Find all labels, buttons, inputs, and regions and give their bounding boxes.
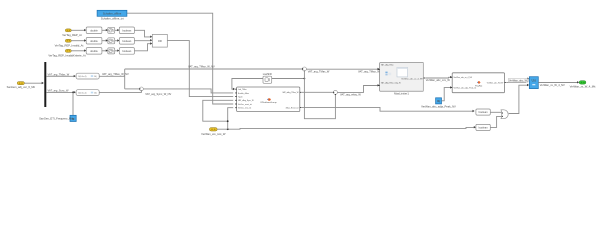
svg-text:1/(0.1s+1): 1/(0.1s+1) [78, 93, 87, 95]
junction dot on bottom wire [227, 128, 229, 130]
constant block Schalter_offline [97, 10, 127, 20]
svg-text:XPlattformGroup: XPlattformGroup [260, 101, 277, 104]
data type conversion double row3 [86, 48, 102, 55]
svg-text:VerWan_abc_W_NV: VerWan_abc_W_NV [487, 82, 504, 84]
wire inport1 to double1 [71, 29, 86, 31]
compare-to-constant block row1 [108, 27, 115, 33]
data type conversion boolean row1 [119, 27, 134, 34]
wire goto block up into PegRat in2 [442, 86, 453, 101]
wire inport3 to double3 [71, 49, 86, 51]
inport SanGen_adj_ver_6_Mit [7, 82, 35, 89]
svg-text:boolean: boolean [122, 29, 132, 32]
svg-text:TqaIn: TqaIn [238, 97, 243, 99]
svg-text:Schalter_offline_txt: Schalter_offline_txt [101, 16, 124, 20]
compare-to-constant block row2 [108, 38, 115, 44]
svg-text:Schalter_offline: Schalter_offline [103, 11, 122, 15]
wire bottom inport to boolean block b2 [217, 126, 476, 129]
data type conversion double row2 [86, 38, 102, 45]
svg-text:xMax_Reset_txt: xMax_Reset_txt [286, 106, 299, 109]
svg-text:VAT_arg_TMax_W_NV: VAT_arg_TMax_W_NV [188, 65, 215, 69]
wire compare3 to boolean3 [115, 49, 120, 51]
data type conversion double row1 [86, 27, 102, 34]
PegRat port ticks [451, 77, 506, 87]
svg-text:VerWan_xx_W_4_Mit: VerWan_xx_W_4_Mit [570, 85, 596, 89]
subsystem MaxLimiter1 with plot preview [380, 63, 424, 96]
feed of bottom inport net: inport VerWan_ete_test_W [201, 128, 226, 136]
wire double1 to compare1 [102, 29, 108, 31]
svg-text:Uo: Uo [531, 79, 536, 83]
inport VerTag_REP_Invalid_At [55, 39, 84, 47]
wire filter1 output with branch up-down [99, 69, 302, 89]
wire MaxLimiter1 out to PegRat subsystem [425, 76, 452, 82]
svg-text:MaxLimiter1: MaxLimiter1 [394, 92, 409, 96]
svg-text:LowShift: LowShift [263, 73, 273, 76]
svg-text:double: double [90, 50, 98, 53]
wire compare1 to boolean1 [115, 29, 120, 31]
wire bubble to MaxLimiter1 in1 [306, 68, 380, 74]
wire OR output down to big subsystem in3 [167, 41, 233, 97]
svg-text:Enable_xMax: Enable_xMax [238, 93, 249, 95]
wire sum bubble to MaxLimiter1 in2 [337, 84, 379, 96]
merge bubble on lower branch [139, 87, 143, 91]
wire big subsystem out1 to sum bubble [302, 91, 334, 93]
svg-text:VerWan_xx_W_4_NV: VerWan_xx_W_4_NV [540, 83, 565, 87]
svg-text:VerWan_abc_xx_4_NV: VerWan_abc_xx_4_NV [454, 77, 473, 79]
data type conversion boolean row3 [119, 48, 134, 55]
wire rate transition to outport [538, 81, 579, 87]
svg-text:VerDec_resx_txt: VerDec_resx_txt [238, 107, 252, 110]
wire PegRat out to rate transition block [506, 78, 532, 83]
sum bubble right of big subsystem [333, 90, 338, 95]
wire boolean1 to OR in1 [134, 30, 152, 38]
wire bubble to big subsystem in2 [143, 89, 233, 96]
boolean conversion b1 [476, 109, 490, 115]
wire boolean3 to OR in3 [134, 42, 152, 51]
svg-text:VAT_arg_relay_W: VAT_arg_relay_W [340, 92, 361, 96]
bus selector bar [44, 62, 46, 107]
wire demux out2 to filter2 [46, 88, 75, 93]
branch bubble on TMax wire [302, 67, 307, 72]
svg-text:VAT_xArg_TMax: VAT_xArg_TMax [381, 64, 394, 67]
logical operator OR block [152, 34, 167, 47]
svg-text:VAT_xArg_Sync_W: VAT_xArg_Sync_W [238, 99, 254, 102]
wire inport2 to double2 [71, 39, 86, 41]
svg-text:boolean: boolean [122, 40, 132, 43]
wire boolean2 to OR in2 [134, 39, 152, 41]
wire double2 to compare2 [102, 39, 108, 41]
wire b1 to OR gate in1 [490, 111, 501, 113]
svg-text:VAT_arg_Sync_W: VAT_arg_Sync_W [48, 88, 70, 92]
wire double3 to compare3 [102, 49, 108, 51]
svg-text:boolean: boolean [479, 111, 489, 114]
inport VerTag_REP_At [62, 29, 82, 37]
svg-text:VAT_arg_TMax_W: VAT_arg_TMax_W [308, 69, 330, 73]
wire big subsystem out2 to boolean b1 [302, 107, 475, 112]
svg-text:VAT_arg_TMax_W_NV: VAT_arg_TMax_W_NV [102, 72, 129, 76]
wire branch down to SanGen_ETI block [72, 92, 74, 115]
MaxLimiter1 port ticks [378, 70, 425, 86]
compare-to-constant block row3 [108, 48, 115, 54]
data type conversion boolean row2 [119, 38, 134, 45]
svg-text:VerDec_reset_txt: VerDec_reset_txt [238, 103, 252, 106]
rate transition block Uo [529, 77, 538, 89]
svg-text:Lab_TMax: Lab_TMax [238, 89, 247, 91]
svg-text:VAT_xArg_TMax_W: VAT_xArg_TMax_W [282, 91, 298, 94]
svg-text:double: double [90, 40, 98, 43]
svg-text:VerTag_REP_At: VerTag_REP_At [62, 33, 82, 37]
label on long TMax wire [188, 65, 215, 69]
branch from bottom wire up to big subsystem in4 and in6 [203, 100, 233, 129]
svg-text:VAT_arg_TMax_W: VAT_arg_TMax_W [358, 70, 380, 74]
svg-text:VerTag_REP_InvalidKriterie_At: VerTag_REP_InvalidKriterie_At [48, 53, 85, 57]
feedback wire through unit delay into big subsystem in1 [232, 78, 305, 91]
svg-text:SanGen_adj_ver_6_Mit: SanGen_adj_ver_6_Mit [7, 85, 35, 89]
outport VerWan_xx_W_4_Mit [570, 81, 596, 89]
svg-text:boolean: boolean [122, 50, 132, 53]
goto block SanGen_ETI_Frequenz_Mit [39, 115, 76, 121]
svg-text:VerWan_etx_txst_W: VerWan_etx_txst_W [201, 132, 226, 136]
wire OR gate output up to rate transition in2 [509, 84, 529, 114]
svg-text:VerWan_abc_xxx_W: VerWan_abc_xxx_W [426, 78, 451, 82]
wire demux out1 to filter1 [46, 72, 75, 77]
wire bubble down around to sum bubble [304, 71, 335, 119]
svg-text:VerWan_abc_adja_Peak_NV: VerWan_abc_adja_Peak_NV [421, 105, 456, 109]
svg-text:VerWan_abc_adja_Peak_txt: VerWan_abc_adja_Peak_txt [454, 87, 477, 90]
svg-text:boolean: boolean [479, 127, 489, 130]
goto block VerWan_abc_adja_Peak_NV [421, 98, 456, 109]
junction dot on filter2 input wire [72, 92, 74, 94]
OR gate distinctive shape [501, 110, 508, 119]
wire filter2 output into bubble bottom [99, 91, 141, 93]
filter subsystem 1 [76, 73, 99, 79]
wire from Schalter block to big subsystem in5 [127, 13, 233, 104]
svg-text:1/(0.1s+1): 1/(0.1s+1) [78, 76, 87, 78]
subsystem PegRat [452, 73, 504, 93]
svg-text:PegRat: PegRat [475, 84, 483, 87]
filter subsystem 2 [76, 90, 99, 96]
boolean conversion b2 [476, 124, 490, 130]
wire compare2 to boolean2 [115, 39, 120, 41]
big subsystem XPlattformGroup [237, 87, 300, 112]
unit delay feedback block above big subsystem [263, 73, 273, 83]
svg-text:OR: OR [158, 39, 162, 43]
svg-text:VAT_xArg_TMax_relay_W: VAT_xArg_TMax_relay_W [381, 81, 401, 84]
wire inport to demux [24, 82, 43, 84]
svg-text:VAT_arg_TMax_W: VAT_arg_TMax_W [48, 72, 70, 76]
big subsystem input port ticks [235, 89, 301, 108]
inport VerTag_REP_InvalidKriterie_At [48, 49, 85, 57]
svg-text:double: double [90, 29, 98, 32]
svg-text:SanGen_ETI_Frequenz_Mit: SanGen_ETI_Frequenz_Mit [39, 117, 73, 121]
wire b2 to OR gate in2 [490, 116, 501, 127]
svg-text:VAT_arg_Sync_W_NV: VAT_arg_Sync_W_NV [145, 92, 171, 96]
svg-text:VerWan_abc_W_NV: VerWan_abc_W_NV [509, 80, 532, 83]
svg-text:VerTag_REP_Invalid_At: VerTag_REP_Invalid_At [55, 43, 84, 47]
svg-text:VerWan_abc_xx_4_NV: VerWan_abc_xx_4_NV [401, 77, 423, 80]
